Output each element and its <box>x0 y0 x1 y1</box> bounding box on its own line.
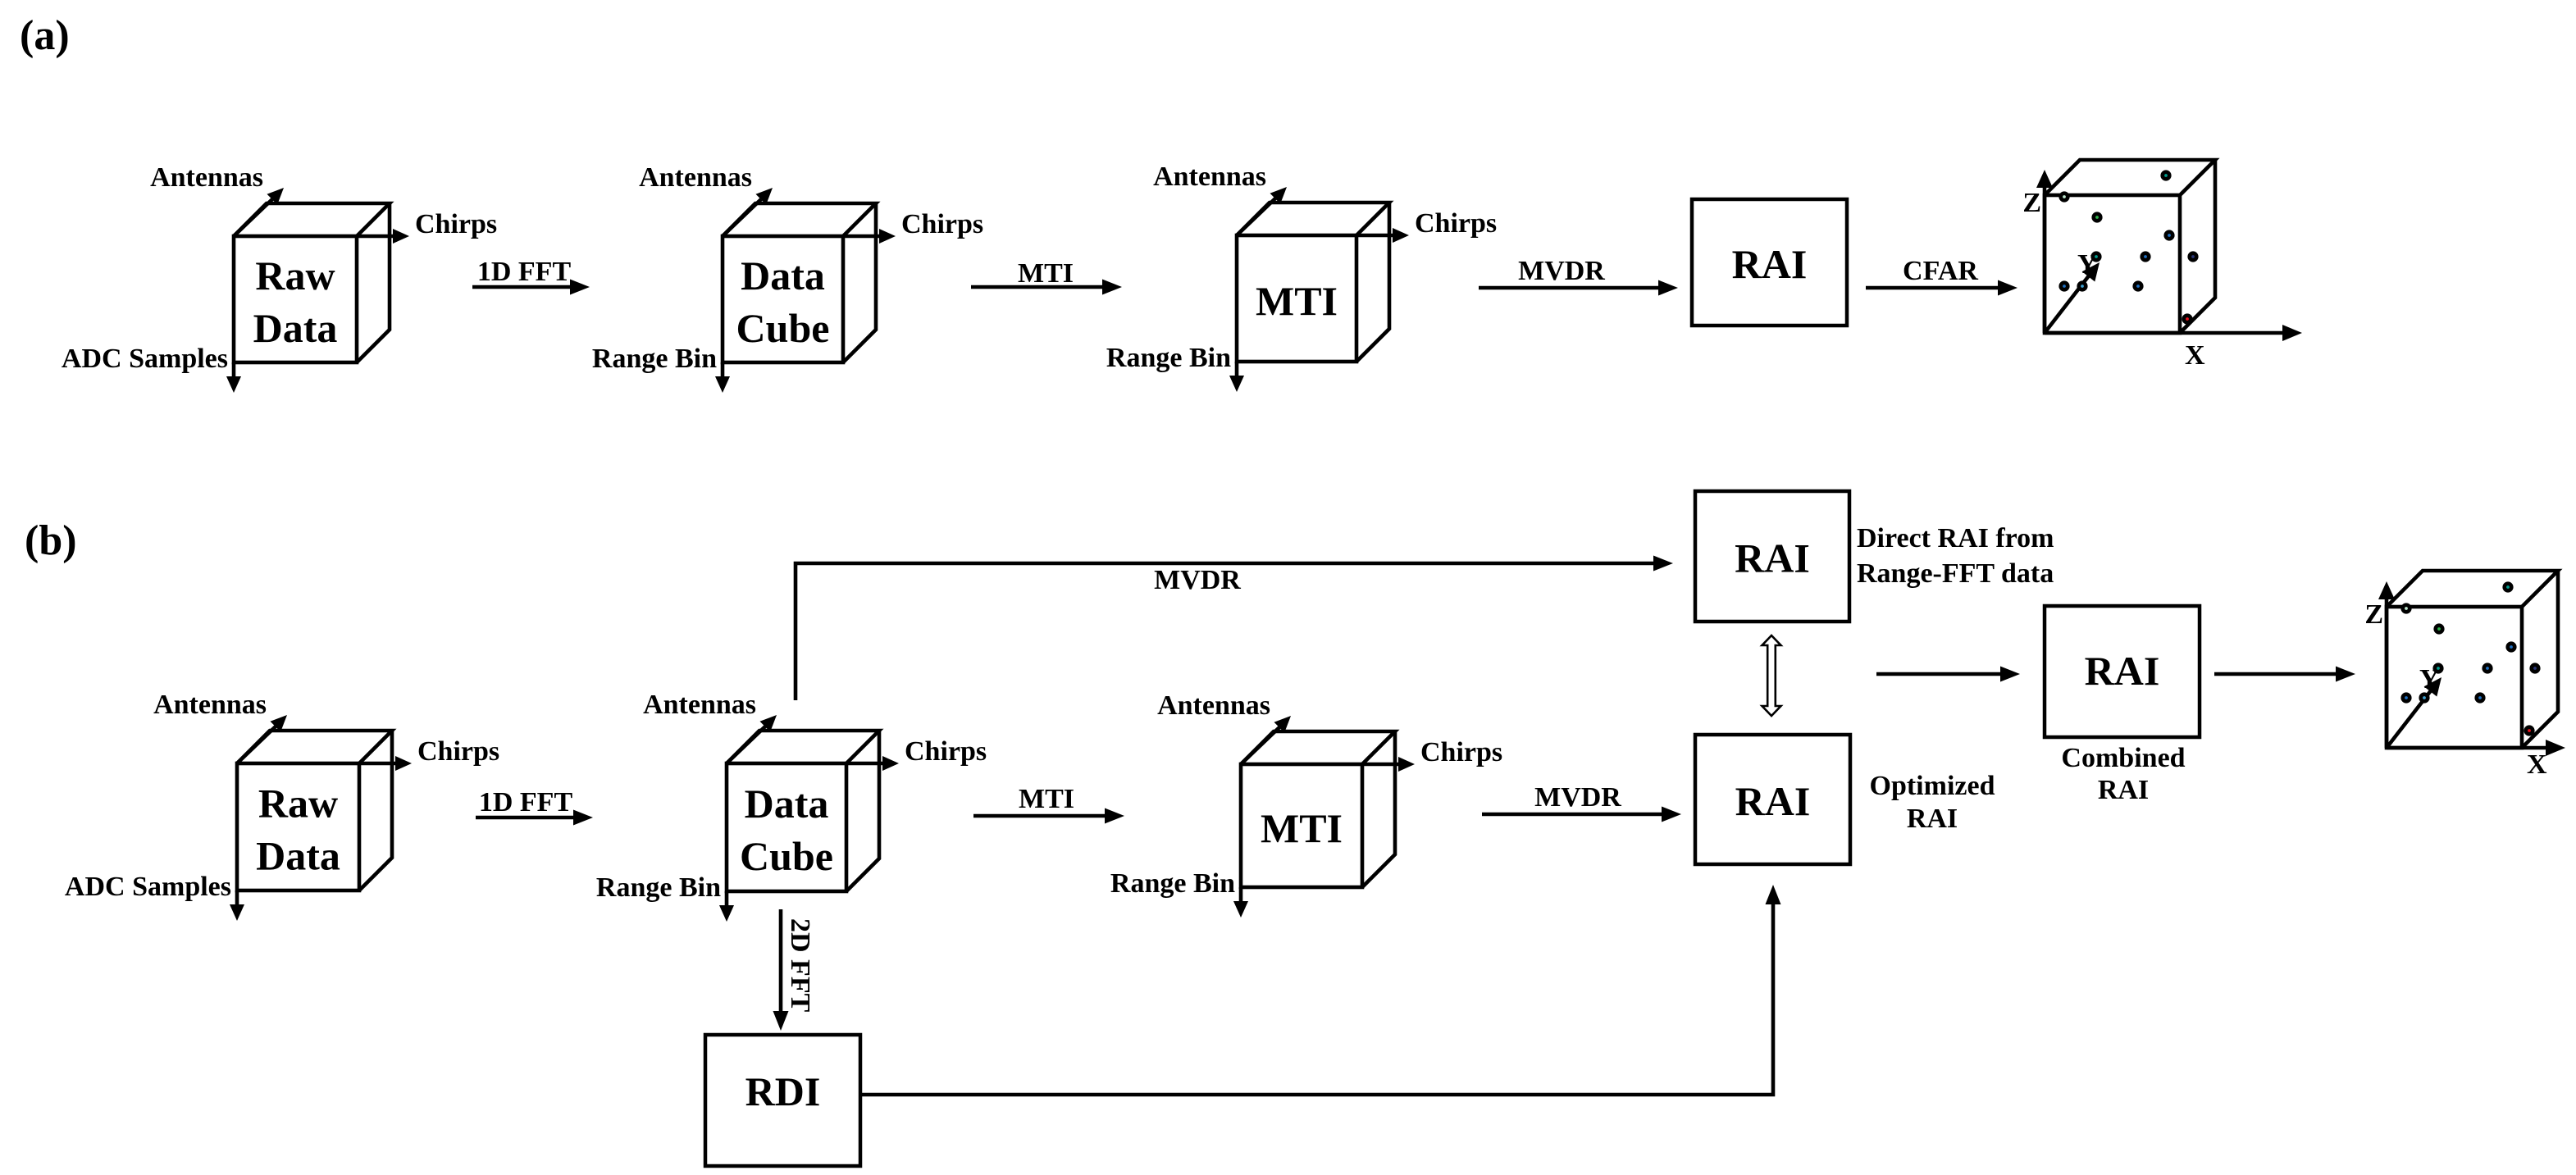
svg-text:Raw: Raw <box>255 253 335 298</box>
svg-text:Antennas: Antennas <box>643 690 756 720</box>
cube MTI-a body <box>1237 203 1389 362</box>
cube RawData-a Antennas axis arrow <box>234 188 284 236</box>
svg-text:Chirps: Chirps <box>1415 208 1497 239</box>
svg-text:Antennas: Antennas <box>1153 162 1266 192</box>
label Direct RAI from Range-FFT data <box>1857 523 2054 589</box>
scatter cube pointcloud-a Z axis <box>2036 170 2053 333</box>
arrow CFAR (a) <box>1866 280 2017 296</box>
wire branch DataCube-b top to MVDR line <box>796 556 1673 701</box>
cube MTI-b body <box>1241 731 1395 887</box>
wire RDI to optimized RAI <box>860 885 1781 1095</box>
cube DataCube-a Chirps axis arrow <box>843 229 896 244</box>
scatter cube pointcloud-a detection dot 2 <box>2059 191 2069 202</box>
svg-text:MTI: MTI <box>1018 258 1074 289</box>
cube MTI-b Chirps axis arrow <box>1362 757 1415 772</box>
svg-text:MTI: MTI <box>1261 805 1343 851</box>
scatter cube pointcloud-b Z axis <box>2378 581 2395 748</box>
svg-text:Raw: Raw <box>258 781 338 827</box>
svg-text:X: X <box>2185 340 2205 371</box>
arrow MVDR (b) <box>1482 807 1681 822</box>
svg-text:Data: Data <box>256 833 340 879</box>
svg-text:Antennas: Antennas <box>1157 690 1270 721</box>
svg-text:Range Bin: Range Bin <box>1106 343 1231 373</box>
cube RawData-b face label <box>256 781 340 879</box>
cube RawData-a face label <box>253 253 338 351</box>
cube MTI-a Chirps axis arrow <box>1356 228 1409 243</box>
cube RawData-b body <box>237 731 392 890</box>
cube DataCube-a Range Bin axis arrow <box>715 362 730 393</box>
cube DataCube-b face label <box>740 781 833 879</box>
scatter cube pointcloud-b detection dot 7 <box>2432 663 2443 673</box>
box RAI-combined <box>2045 606 2200 737</box>
arrow 1D FFT (b) <box>476 810 593 826</box>
svg-text:1D FFT: 1D FFT <box>477 257 572 287</box>
arrow 2D FFT down <box>773 909 789 1031</box>
box RAI-a <box>1692 199 1847 326</box>
svg-text:Antennas: Antennas <box>150 162 263 193</box>
scatter cube pointcloud-b detection dot 4 <box>2505 641 2516 652</box>
cube MTI-a Range Bin axis arrow <box>1229 362 1244 392</box>
scatter cube pointcloud-b detection dot 9 <box>2419 692 2429 703</box>
cube DataCube-b Range Bin axis arrow <box>719 891 734 922</box>
svg-text:RAI: RAI <box>2098 775 2149 805</box>
cube DataCube-a body <box>723 203 876 362</box>
scatter cube pointcloud-a detection dot 8 <box>2059 280 2069 291</box>
svg-text:MTI: MTI <box>1019 784 1074 814</box>
scatter cube pointcloud-b body <box>2387 571 2558 748</box>
svg-text:Chirps: Chirps <box>905 736 987 767</box>
cube RawData-b ADC Samples axis arrow <box>230 890 244 921</box>
svg-text:Range Bin: Range Bin <box>592 344 717 374</box>
arrow MTI (b) <box>973 808 1124 824</box>
label Optimized RAI <box>1870 771 1995 834</box>
scatter cube pointcloud-a detection dot 11 <box>2182 313 2192 324</box>
cube DataCube-a Antennas axis arrow <box>723 188 773 236</box>
svg-text:MVDR: MVDR <box>1154 565 1241 595</box>
scatter cube pointcloud-b detection dot 6 <box>2529 663 2540 673</box>
svg-text:Antennas: Antennas <box>153 690 267 720</box>
arrow combined RAI to point cloud <box>2214 667 2355 682</box>
cube MTI-a face label <box>1256 278 1338 324</box>
svg-text:(b): (b) <box>25 517 77 564</box>
svg-text:Range Bin: Range Bin <box>1110 868 1235 899</box>
scatter cube pointcloud-a detection dot 7 <box>2090 251 2101 262</box>
svg-text:Chirps: Chirps <box>1420 737 1502 767</box>
cube RawData-b Antennas axis arrow <box>237 715 287 763</box>
cube RawData-a ADC Samples axis arrow <box>226 362 241 393</box>
svg-text:MVDR: MVDR <box>1534 782 1621 813</box>
svg-text:Data: Data <box>253 305 338 351</box>
svg-text:Combined: Combined <box>2061 743 2185 773</box>
svg-text:Range-FFT data: Range-FFT data <box>1857 558 2054 589</box>
svg-text:Cube: Cube <box>740 833 833 879</box>
svg-text:(a): (a) <box>20 12 70 59</box>
cube MTI-b Range Bin axis arrow <box>1233 887 1248 918</box>
svg-text:RAI: RAI <box>1735 778 1811 824</box>
cube MTI-b Antennas axis arrow <box>1241 716 1291 764</box>
svg-text:Optimized: Optimized <box>1870 771 1995 801</box>
arrow to combined RAI <box>1876 667 2020 682</box>
svg-text:Antennas: Antennas <box>639 162 752 193</box>
scatter cube pointcloud-a Y axis <box>2045 262 2100 333</box>
arrow MTI (a) <box>971 280 1122 295</box>
svg-text:RDI: RDI <box>745 1068 821 1114</box>
svg-text:RAI: RAI <box>1907 804 1958 834</box>
svg-text:Chirps: Chirps <box>901 209 983 239</box>
svg-text:Direct RAI from: Direct RAI from <box>1857 523 2054 553</box>
label Combined RAI <box>2061 743 2185 805</box>
svg-text:RAI: RAI <box>1732 241 1808 287</box>
cube MTI-b face label <box>1261 805 1343 851</box>
scatter cube pointcloud-a detection dot 3 <box>2091 212 2102 222</box>
svg-text:RAI: RAI <box>2085 648 2160 694</box>
box RAI-optimized <box>1695 735 1850 864</box>
svg-text:1D FFT: 1D FFT <box>479 787 573 817</box>
scatter cube pointcloud-a detection dot 4 <box>2163 230 2174 240</box>
svg-text:X: X <box>2527 749 2547 780</box>
scatter cube pointcloud-b Y axis <box>2387 677 2442 748</box>
scatter cube pointcloud-b detection dot 10 <box>2474 692 2485 703</box>
scatter cube pointcloud-a detection dot 5 <box>2140 251 2150 262</box>
cube RawData-a body <box>234 203 390 362</box>
scatter cube pointcloud-b detection dot 8 <box>2400 692 2411 703</box>
svg-text:Data: Data <box>741 253 825 298</box>
cube MTI-a Antennas axis arrow <box>1237 187 1287 235</box>
scatter cube pointcloud-a detection dot 1 <box>2160 170 2171 180</box>
arrow 1D FFT (a) <box>472 280 590 295</box>
svg-text:RAI: RAI <box>1735 535 1810 581</box>
scatter cube pointcloud-a detection dot 10 <box>2132 280 2143 291</box>
svg-text:MTI: MTI <box>1256 278 1338 324</box>
cube DataCube-b body <box>727 731 879 891</box>
scatter cube pointcloud-a detection dot 9 <box>2077 280 2087 291</box>
scatter cube pointcloud-b detection dot 11 <box>2524 725 2534 736</box>
double hollow arrow between RAI boxes <box>1762 635 1781 716</box>
scatter cube pointcloud-b detection dot 5 <box>2482 663 2492 673</box>
svg-text:Chirps: Chirps <box>417 736 499 767</box>
svg-text:Chirps: Chirps <box>415 209 497 239</box>
svg-text:Z: Z <box>2364 599 2383 630</box>
cube DataCube-b Chirps axis arrow <box>846 756 899 771</box>
scatter cube pointcloud-a body <box>2045 160 2215 333</box>
svg-text:ADC Samples: ADC Samples <box>62 344 228 374</box>
svg-text:2D FFT: 2D FFT <box>785 918 815 1013</box>
svg-text:Range Bin: Range Bin <box>596 872 721 903</box>
arrow MVDR (a) <box>1479 280 1678 296</box>
scatter cube pointcloud-b detection dot 2 <box>2400 603 2411 613</box>
cube DataCube-a face label <box>736 253 830 351</box>
svg-text:ADC Samples: ADC Samples <box>65 872 231 902</box>
box RAI-direct <box>1695 491 1849 622</box>
scatter cube pointcloud-b detection dot 1 <box>2502 581 2513 592</box>
cube RawData-a Chirps axis arrow <box>357 229 409 244</box>
cube DataCube-b Antennas axis arrow <box>727 715 777 763</box>
box RDI <box>705 1035 860 1166</box>
scatter cube pointcloud-b detection dot 3 <box>2433 623 2444 634</box>
svg-text:Cube: Cube <box>736 305 830 351</box>
svg-text:Z: Z <box>2022 188 2041 218</box>
cube RawData-b Chirps axis arrow <box>359 756 412 771</box>
svg-text:CFAR: CFAR <box>1903 256 1978 286</box>
scatter cube pointcloud-b X axis <box>2387 740 2565 756</box>
scatter cube pointcloud-a detection dot 6 <box>2187 251 2198 262</box>
svg-text:Data: Data <box>745 781 829 827</box>
svg-text:MVDR: MVDR <box>1518 256 1605 286</box>
scatter cube pointcloud-a X axis <box>2045 325 2302 341</box>
